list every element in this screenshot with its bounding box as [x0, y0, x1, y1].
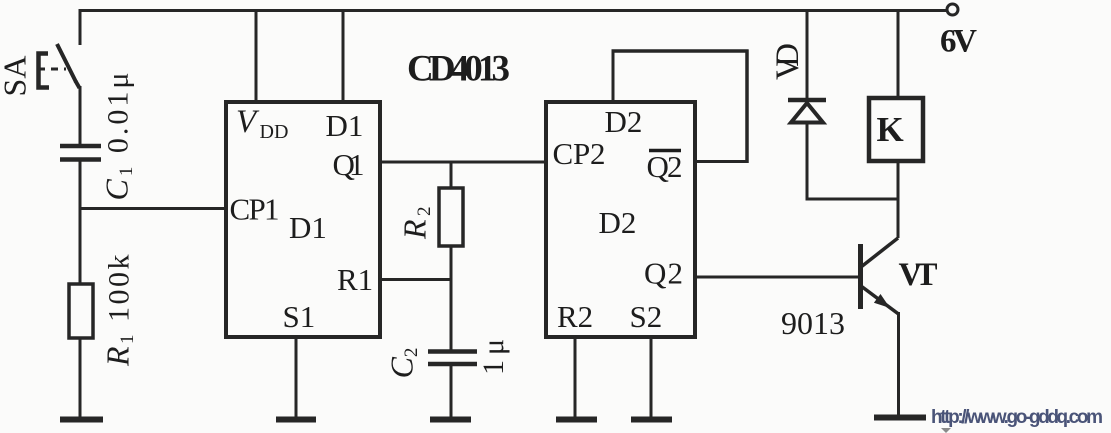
pin label VDD [236, 104, 288, 143]
ground (R1) [60, 417, 103, 423]
svg-text:9013: 9013 [781, 305, 845, 341]
pin label D2 [605, 104, 643, 139]
svg-text:1μ: 1μ [477, 334, 510, 375]
capacitor C2 [428, 352, 477, 365]
ground (C2) [430, 417, 471, 423]
svg-text:Q1: Q1 [333, 147, 365, 182]
svg-text:CD4013: CD4013 [407, 49, 510, 90]
wire rail down to diode VD [806, 9, 809, 99]
pin label S1 [283, 299, 316, 334]
wire S2 pin to ground [650, 336, 653, 418]
svg-text:CP1: CP1 [230, 192, 280, 227]
label C1 0.01u [99, 70, 138, 201]
wire feedback top horizontal [612, 49, 749, 53]
svg-text:V: V [236, 104, 260, 140]
ground (S1) [276, 417, 316, 423]
pin label Q2bar [647, 149, 683, 184]
wire S1 to ground [295, 336, 298, 418]
svg-text:6V: 6V [940, 24, 977, 60]
pin label R1 [337, 262, 373, 297]
label 1u [477, 334, 510, 375]
wire from rail down to switch SA [79, 9, 82, 45]
wire feedback right vertical [745, 50, 749, 164]
wire C1 down past CP1 node to R1 [79, 159, 82, 283]
wire top supply rail [80, 9, 947, 12]
svg-text:D2: D2 [599, 205, 637, 240]
ground (emitter) [874, 415, 926, 421]
label VT [899, 257, 938, 293]
svg-text:R2: R2 [397, 203, 436, 240]
terminal 6V (open circle) [947, 4, 958, 15]
svg-text:D2: D2 [605, 104, 643, 139]
wire rail down to relay K [897, 9, 900, 98]
watermark url [931, 407, 1103, 433]
capacitor C1 [60, 146, 101, 160]
svg-text:DD: DD [260, 121, 289, 143]
transistor VT [861, 238, 899, 314]
ground (S2 pin) [631, 417, 672, 423]
svg-text:VD: VD [770, 43, 806, 80]
svg-text:C1 0.01μ: C1 0.01μ [99, 70, 138, 201]
wire diode anode down [806, 124, 809, 201]
label 6V [940, 24, 977, 60]
flip-flop D2 block [546, 102, 695, 337]
wire Q1 to CP2 [380, 161, 544, 164]
ground (R2 pin) [556, 417, 597, 423]
svg-text:D1: D1 [326, 108, 364, 143]
wire VDD pin to rail [255, 10, 258, 101]
label VD [770, 43, 806, 80]
label CD4013 [407, 49, 510, 90]
svg-text:R1: R1 [337, 262, 373, 297]
svg-text:S2: S2 [630, 299, 663, 334]
wire Q2 to transistor base [695, 276, 859, 279]
label C2 [384, 348, 423, 379]
pin label CP1 [230, 192, 280, 227]
wire R1 pin to R2/C2 node [380, 278, 453, 281]
svg-text:C2: C2 [384, 348, 423, 379]
svg-text:R2: R2 [557, 299, 593, 334]
svg-text:Q2: Q2 [647, 149, 683, 184]
pin label R2 [557, 299, 593, 334]
svg-text:CP2: CP2 [553, 136, 606, 171]
svg-text:S1: S1 [283, 299, 316, 334]
wire node to CP1 pin [79, 207, 227, 210]
resistor R2 [439, 188, 463, 246]
svg-text:D1: D1 [289, 210, 327, 245]
wire switch to C1 [79, 86, 82, 146]
label K [877, 110, 904, 149]
wire diode to K bottom node [806, 198, 899, 201]
svg-text:K: K [877, 110, 904, 149]
svg-text:SA: SA [0, 56, 33, 97]
svg-text:http://www.go-gddq.com: http://www.go-gddq.com [931, 407, 1103, 428]
pin label D1 [326, 108, 364, 143]
flip-flop D1 block [226, 102, 380, 337]
label D2 (device name) [599, 205, 637, 240]
wire emitter to ground [897, 312, 900, 415]
wire K bottom to collector [897, 161, 900, 238]
wire R2 bottom to C2 [450, 246, 453, 352]
svg-text:Q2: Q2 [644, 256, 683, 291]
pin label Q2 [644, 256, 683, 291]
wire R1 to ground [79, 338, 82, 418]
wire node to R2 top [450, 162, 453, 188]
pin label S2 [630, 299, 663, 334]
label SA [0, 56, 33, 97]
label R1 100k [100, 252, 139, 367]
wire R2 pin to ground [574, 336, 577, 418]
pin label Q1 [333, 147, 365, 182]
wire D1 pin to rail [342, 10, 345, 101]
label 9013 [781, 305, 845, 341]
wire feedback down to D2 pin [612, 50, 615, 102]
svg-text:R1 100k: R1 100k [100, 252, 139, 367]
relay K [869, 98, 923, 161]
wire C2 to ground [450, 364, 453, 418]
diode VD [788, 100, 826, 123]
wire Q2bar feedback out [695, 160, 749, 163]
label R2 [397, 203, 436, 240]
svg-text:VT: VT [899, 257, 938, 293]
switch SA [38, 44, 80, 88]
resistor R1 [69, 284, 93, 338]
label D1 (device name) [289, 210, 327, 245]
pin label CP2 [553, 136, 606, 171]
